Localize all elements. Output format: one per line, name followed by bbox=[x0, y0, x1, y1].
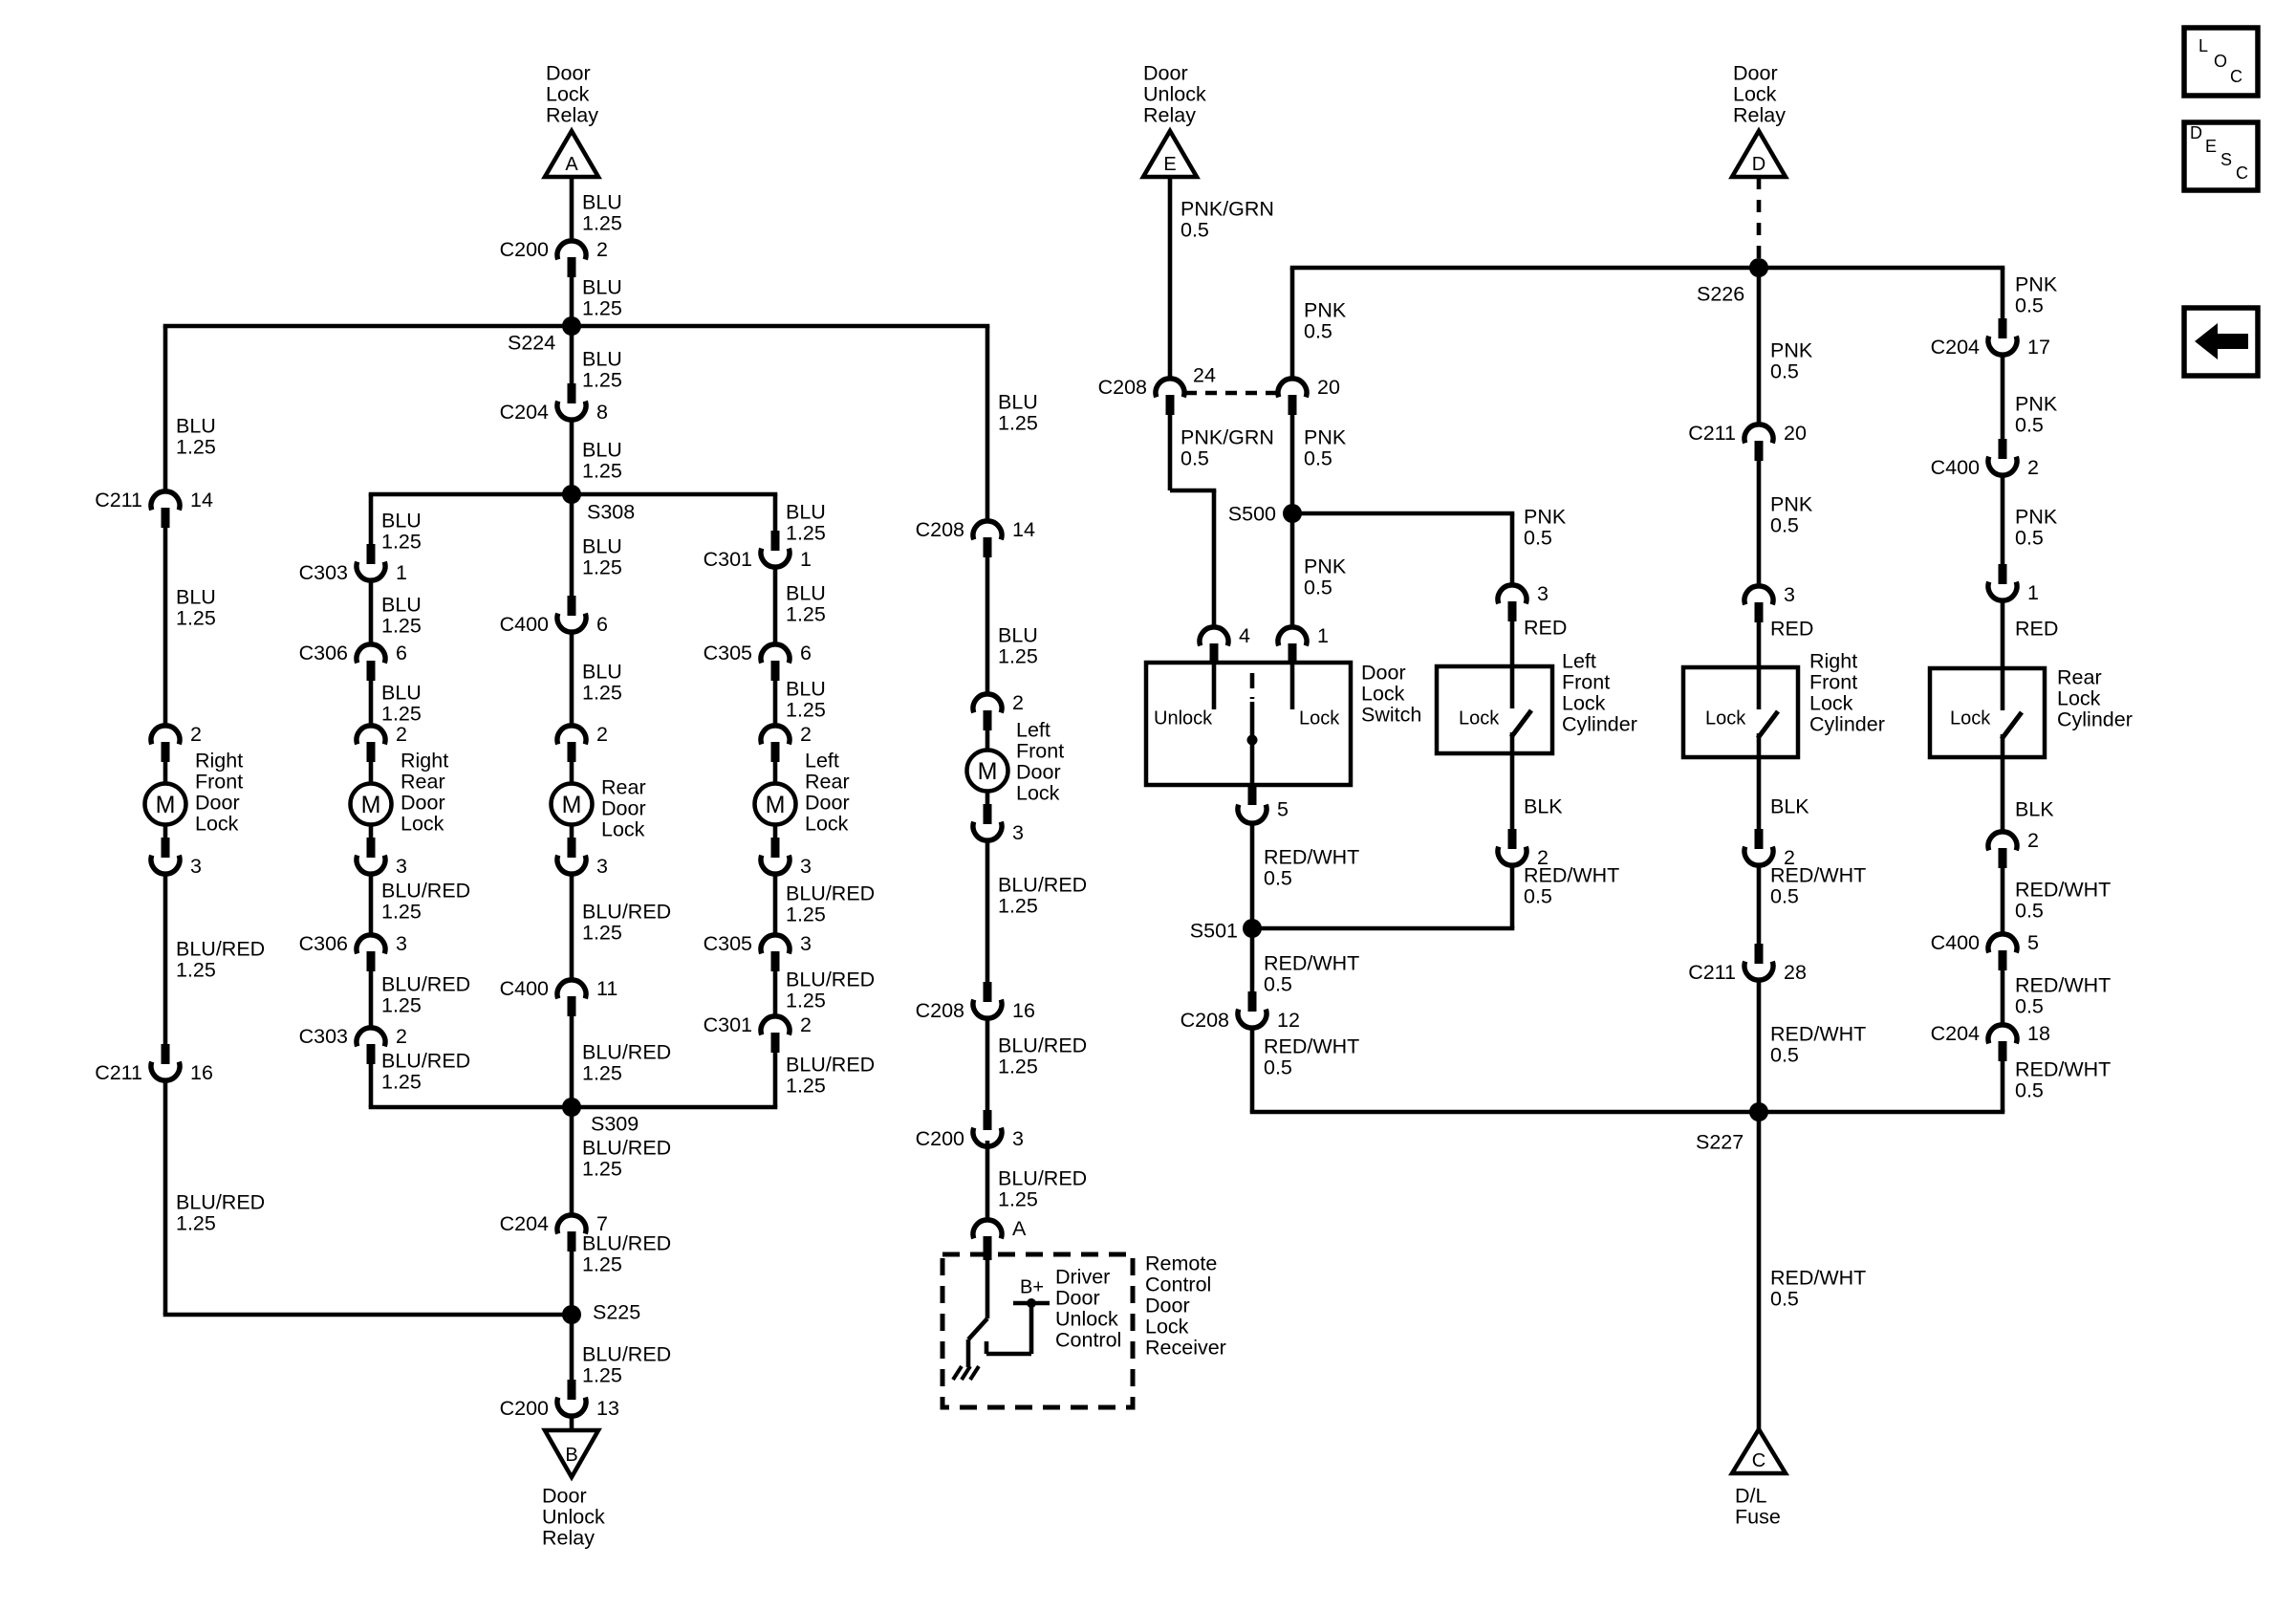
svg-text:Door: Door bbox=[1361, 661, 1406, 684]
svg-text:1.25: 1.25 bbox=[582, 555, 622, 578]
svg-text:Unlock: Unlock bbox=[1154, 708, 1213, 729]
svg-text:RED/WHT: RED/WHT bbox=[1770, 1022, 1866, 1045]
svg-text:2: 2 bbox=[800, 723, 812, 746]
svg-text:2: 2 bbox=[2027, 456, 2039, 479]
svg-text:14: 14 bbox=[1012, 518, 1035, 541]
svg-text:C400: C400 bbox=[1931, 931, 1980, 954]
svg-text:D: D bbox=[1752, 154, 1765, 175]
svg-text:S224: S224 bbox=[508, 331, 555, 354]
svg-text:C306: C306 bbox=[299, 642, 348, 664]
svg-text:C305: C305 bbox=[704, 932, 752, 955]
svg-text:C200: C200 bbox=[500, 1397, 549, 1420]
svg-text:Door: Door bbox=[1143, 61, 1188, 84]
svg-text:Lock: Lock bbox=[1361, 682, 1405, 705]
svg-text:BLU: BLU bbox=[582, 190, 622, 213]
svg-text:Left: Left bbox=[805, 749, 839, 772]
svg-text:BLU/RED: BLU/RED bbox=[582, 1342, 671, 1365]
svg-text:BLU/RED: BLU/RED bbox=[786, 882, 875, 904]
svg-text:1.25: 1.25 bbox=[381, 614, 422, 637]
svg-text:C305: C305 bbox=[704, 642, 752, 664]
svg-text:B+: B+ bbox=[1020, 1276, 1044, 1297]
svg-text:0.5: 0.5 bbox=[1264, 972, 1292, 995]
svg-text:C208: C208 bbox=[1180, 1009, 1229, 1032]
svg-text:1.25: 1.25 bbox=[786, 903, 826, 925]
svg-text:0.5: 0.5 bbox=[1770, 884, 1799, 907]
svg-text:1.25: 1.25 bbox=[582, 921, 622, 944]
svg-text:RED/WHT: RED/WHT bbox=[1770, 1266, 1866, 1289]
svg-text:3: 3 bbox=[1012, 821, 1024, 844]
svg-text:3: 3 bbox=[800, 855, 812, 878]
svg-text:1.25: 1.25 bbox=[786, 602, 826, 625]
svg-text:Remote: Remote bbox=[1145, 1252, 1217, 1274]
svg-text:1.25: 1.25 bbox=[582, 368, 622, 391]
svg-text:1.25: 1.25 bbox=[582, 459, 622, 482]
svg-text:Relay: Relay bbox=[542, 1526, 595, 1549]
svg-text:BLK: BLK bbox=[1770, 795, 1809, 817]
svg-text:6: 6 bbox=[396, 642, 407, 664]
svg-text:RED/WHT: RED/WHT bbox=[1264, 845, 1359, 868]
svg-text:C211: C211 bbox=[95, 489, 142, 512]
svg-text:C303: C303 bbox=[299, 561, 348, 584]
svg-text:C211: C211 bbox=[1688, 961, 1736, 984]
svg-text:Right: Right bbox=[401, 749, 448, 772]
svg-text:S226: S226 bbox=[1697, 282, 1744, 305]
svg-text:BLU/RED: BLU/RED bbox=[786, 1053, 875, 1076]
svg-text:3: 3 bbox=[1012, 1127, 1024, 1150]
svg-text:C204: C204 bbox=[1931, 1022, 1980, 1045]
svg-text:BLK: BLK bbox=[2015, 797, 2054, 820]
svg-text:D/L: D/L bbox=[1735, 1484, 1767, 1507]
svg-text:18: 18 bbox=[2027, 1022, 2050, 1045]
svg-text:BLU/RED: BLU/RED bbox=[381, 879, 470, 902]
svg-text:1.25: 1.25 bbox=[582, 681, 622, 704]
svg-text:S225: S225 bbox=[593, 1300, 640, 1323]
svg-text:A: A bbox=[565, 154, 578, 175]
svg-text:3: 3 bbox=[190, 855, 202, 878]
svg-text:A: A bbox=[1012, 1217, 1027, 1240]
svg-text:C400: C400 bbox=[500, 613, 549, 636]
svg-text:6: 6 bbox=[800, 642, 812, 664]
svg-text:1.25: 1.25 bbox=[998, 1187, 1038, 1210]
svg-text:3: 3 bbox=[396, 855, 407, 878]
svg-text:Lock: Lock bbox=[546, 82, 590, 105]
svg-text:Front: Front bbox=[195, 770, 243, 793]
svg-text:B: B bbox=[565, 1445, 577, 1466]
svg-text:C: C bbox=[1752, 1450, 1765, 1471]
svg-text:BLU: BLU bbox=[582, 438, 622, 461]
svg-text:14: 14 bbox=[190, 489, 213, 512]
svg-text:PNK: PNK bbox=[1304, 425, 1347, 448]
svg-text:2: 2 bbox=[190, 723, 202, 746]
svg-text:0.5: 0.5 bbox=[1264, 1056, 1292, 1078]
svg-text:Cylinder: Cylinder bbox=[2057, 708, 2133, 730]
svg-text:RED: RED bbox=[1524, 616, 1567, 639]
svg-text:Door: Door bbox=[805, 791, 850, 814]
svg-text:Unlock: Unlock bbox=[1055, 1307, 1118, 1330]
svg-text:1.25: 1.25 bbox=[582, 1363, 622, 1386]
svg-text:Unlock: Unlock bbox=[1143, 82, 1206, 105]
svg-text:Front: Front bbox=[1562, 670, 1610, 693]
svg-text:S308: S308 bbox=[587, 500, 635, 523]
svg-text:Lock: Lock bbox=[1705, 708, 1746, 729]
svg-text:C208: C208 bbox=[1098, 376, 1147, 399]
svg-text:Lock: Lock bbox=[1950, 708, 1991, 729]
svg-text:1.25: 1.25 bbox=[381, 1070, 422, 1093]
svg-text:Left: Left bbox=[1562, 649, 1596, 672]
svg-text:C301: C301 bbox=[704, 548, 752, 571]
svg-text:C204: C204 bbox=[500, 1212, 549, 1235]
svg-text:Lock: Lock bbox=[1809, 691, 1853, 714]
svg-text:0.5: 0.5 bbox=[2015, 526, 2044, 549]
svg-text:RED/WHT: RED/WHT bbox=[1524, 863, 1619, 886]
svg-text:C400: C400 bbox=[500, 977, 549, 1000]
svg-text:PNK: PNK bbox=[1304, 555, 1347, 577]
svg-text:Rear: Rear bbox=[2057, 665, 2102, 688]
svg-text:1.25: 1.25 bbox=[582, 1061, 622, 1084]
svg-text:1.25: 1.25 bbox=[176, 435, 216, 458]
svg-text:M: M bbox=[562, 792, 582, 818]
svg-text:Left: Left bbox=[1016, 718, 1051, 741]
svg-text:S227: S227 bbox=[1696, 1130, 1744, 1153]
svg-text:0.5: 0.5 bbox=[2015, 899, 2044, 922]
svg-text:2: 2 bbox=[396, 723, 407, 746]
svg-text:M: M bbox=[156, 792, 176, 818]
svg-text:1: 1 bbox=[1317, 624, 1329, 647]
svg-text:3: 3 bbox=[596, 855, 608, 878]
svg-text:Lock: Lock bbox=[2057, 686, 2101, 709]
svg-text:1.25: 1.25 bbox=[786, 698, 826, 721]
svg-text:C204: C204 bbox=[500, 401, 549, 424]
svg-text:17: 17 bbox=[2027, 336, 2050, 359]
svg-text:16: 16 bbox=[1012, 999, 1035, 1022]
svg-text:Front: Front bbox=[1016, 739, 1064, 762]
svg-text:C: C bbox=[2236, 163, 2248, 183]
svg-text:0.5: 0.5 bbox=[1304, 319, 1332, 342]
svg-text:PNK: PNK bbox=[2015, 505, 2058, 528]
svg-text:BLU: BLU bbox=[786, 500, 826, 523]
svg-text:Right: Right bbox=[1809, 649, 1857, 672]
svg-text:5: 5 bbox=[1277, 797, 1289, 820]
svg-text:Receiver: Receiver bbox=[1145, 1336, 1226, 1359]
svg-text:C211: C211 bbox=[95, 1061, 142, 1084]
svg-text:1.25: 1.25 bbox=[381, 993, 422, 1016]
svg-text:4: 4 bbox=[1239, 624, 1250, 647]
svg-text:12: 12 bbox=[1277, 1009, 1300, 1032]
svg-text:1.25: 1.25 bbox=[786, 1074, 826, 1097]
svg-text:Relay: Relay bbox=[546, 103, 598, 126]
svg-text:0.5: 0.5 bbox=[1180, 446, 1209, 469]
svg-text:3: 3 bbox=[396, 932, 407, 955]
svg-text:0.5: 0.5 bbox=[1524, 526, 1552, 549]
svg-text:Control: Control bbox=[1145, 1273, 1211, 1295]
svg-text:Door: Door bbox=[401, 791, 445, 814]
svg-text:1.25: 1.25 bbox=[582, 1157, 622, 1180]
svg-text:E: E bbox=[2205, 137, 2217, 156]
svg-text:C208: C208 bbox=[916, 999, 964, 1022]
svg-text:Lock: Lock bbox=[1562, 691, 1606, 714]
svg-text:Rear: Rear bbox=[805, 770, 850, 793]
svg-text:Driver: Driver bbox=[1055, 1265, 1110, 1288]
svg-text:1.25: 1.25 bbox=[786, 989, 826, 1012]
svg-text:BLU: BLU bbox=[381, 681, 422, 704]
svg-text:1.25: 1.25 bbox=[381, 530, 422, 553]
svg-text:Door: Door bbox=[1145, 1294, 1190, 1317]
svg-text:1.25: 1.25 bbox=[381, 702, 422, 725]
svg-text:Lock: Lock bbox=[1459, 708, 1500, 729]
svg-text:2: 2 bbox=[596, 238, 608, 261]
svg-text:C200: C200 bbox=[500, 238, 549, 261]
svg-text:BLU/RED: BLU/RED bbox=[176, 1190, 265, 1213]
svg-text:BLU: BLU bbox=[582, 660, 622, 683]
svg-text:PNK: PNK bbox=[2015, 272, 2058, 295]
svg-text:M: M bbox=[766, 792, 786, 818]
svg-text:Lock: Lock bbox=[1299, 708, 1340, 729]
svg-text:2: 2 bbox=[596, 723, 608, 746]
svg-text:C: C bbox=[2230, 67, 2242, 86]
svg-text:BLU: BLU bbox=[582, 347, 622, 370]
svg-text:Lock: Lock bbox=[401, 812, 444, 835]
svg-text:Switch: Switch bbox=[1361, 703, 1421, 726]
svg-text:Cylinder: Cylinder bbox=[1809, 712, 1885, 735]
svg-text:Door: Door bbox=[195, 791, 240, 814]
svg-text:BLU: BLU bbox=[786, 581, 826, 604]
svg-text:1: 1 bbox=[2027, 581, 2039, 604]
svg-text:3: 3 bbox=[1784, 583, 1795, 606]
svg-text:1.25: 1.25 bbox=[176, 958, 216, 981]
svg-text:O: O bbox=[2214, 52, 2227, 71]
svg-text:1.25: 1.25 bbox=[998, 644, 1038, 667]
svg-text:BLU/RED: BLU/RED bbox=[582, 1040, 671, 1063]
svg-text:RED/WHT: RED/WHT bbox=[1264, 951, 1359, 974]
svg-text:BLU/RED: BLU/RED bbox=[582, 1231, 671, 1254]
svg-text:BLU: BLU bbox=[998, 390, 1038, 413]
svg-text:BLU: BLU bbox=[998, 623, 1038, 646]
svg-text:1.25: 1.25 bbox=[998, 894, 1038, 917]
svg-text:BLU/RED: BLU/RED bbox=[998, 1166, 1087, 1189]
svg-text:0.5: 0.5 bbox=[1304, 446, 1332, 469]
svg-text:Right: Right bbox=[195, 749, 243, 772]
svg-text:BLU: BLU bbox=[582, 534, 622, 557]
svg-text:PNK/GRN: PNK/GRN bbox=[1180, 197, 1274, 220]
svg-text:1.25: 1.25 bbox=[998, 1055, 1038, 1078]
svg-text:Control: Control bbox=[1055, 1328, 1121, 1351]
svg-text:Relay: Relay bbox=[1733, 103, 1786, 126]
svg-text:0.5: 0.5 bbox=[1770, 1287, 1799, 1310]
svg-text:Lock: Lock bbox=[1016, 781, 1060, 804]
svg-text:BLU/RED: BLU/RED bbox=[786, 968, 875, 991]
svg-text:24: 24 bbox=[1193, 363, 1216, 386]
svg-text:Cylinder: Cylinder bbox=[1562, 712, 1637, 735]
svg-text:RED: RED bbox=[1770, 617, 1813, 640]
svg-text:28: 28 bbox=[1784, 961, 1807, 984]
svg-text:BLU: BLU bbox=[381, 593, 422, 616]
svg-text:20: 20 bbox=[1784, 422, 1807, 445]
svg-text:PNK/GRN: PNK/GRN bbox=[1180, 425, 1274, 448]
svg-text:RED/WHT: RED/WHT bbox=[2015, 973, 2111, 996]
svg-text:S: S bbox=[2220, 150, 2232, 169]
svg-text:Rear: Rear bbox=[401, 770, 445, 793]
svg-text:1.25: 1.25 bbox=[998, 411, 1038, 434]
svg-text:1.25: 1.25 bbox=[381, 900, 422, 923]
svg-text:16: 16 bbox=[190, 1061, 213, 1084]
svg-text:RED: RED bbox=[2015, 617, 2058, 640]
svg-text:PNK: PNK bbox=[1770, 492, 1813, 515]
svg-text:BLU/RED: BLU/RED bbox=[582, 900, 671, 923]
svg-text:PNK: PNK bbox=[1304, 298, 1347, 321]
svg-text:RED/WHT: RED/WHT bbox=[1264, 1034, 1359, 1057]
svg-text:C301: C301 bbox=[704, 1013, 752, 1036]
svg-text:1.25: 1.25 bbox=[582, 211, 622, 234]
svg-text:RED/WHT: RED/WHT bbox=[1770, 863, 1866, 886]
svg-text:20: 20 bbox=[1317, 376, 1340, 399]
svg-text:S500: S500 bbox=[1228, 502, 1276, 525]
svg-text:M: M bbox=[978, 758, 998, 785]
svg-text:1.25: 1.25 bbox=[176, 1211, 216, 1234]
svg-text:6: 6 bbox=[596, 613, 608, 636]
svg-text:Relay: Relay bbox=[1143, 103, 1196, 126]
svg-text:3: 3 bbox=[800, 932, 812, 955]
svg-text:2: 2 bbox=[1012, 691, 1024, 714]
svg-text:C303: C303 bbox=[299, 1025, 348, 1048]
svg-text:1.25: 1.25 bbox=[786, 521, 826, 544]
svg-text:BLK: BLK bbox=[1524, 795, 1563, 817]
svg-text:Lock: Lock bbox=[1733, 82, 1777, 105]
svg-text:Door: Door bbox=[1055, 1286, 1100, 1309]
svg-text:2: 2 bbox=[2027, 829, 2039, 852]
svg-text:C208: C208 bbox=[916, 518, 964, 541]
svg-text:BLU/RED: BLU/RED bbox=[998, 873, 1087, 896]
svg-text:Unlock: Unlock bbox=[542, 1505, 605, 1528]
svg-text:Door: Door bbox=[1016, 760, 1061, 783]
svg-text:1: 1 bbox=[800, 548, 812, 571]
svg-text:5: 5 bbox=[2027, 931, 2039, 954]
svg-text:Lock: Lock bbox=[601, 817, 645, 840]
svg-text:M: M bbox=[361, 792, 381, 818]
svg-text:0.5: 0.5 bbox=[1770, 513, 1799, 536]
svg-text:S501: S501 bbox=[1190, 919, 1238, 942]
svg-text:D: D bbox=[2190, 123, 2202, 142]
svg-text:Front: Front bbox=[1809, 670, 1857, 693]
svg-text:0.5: 0.5 bbox=[1770, 359, 1799, 382]
svg-text:0.5: 0.5 bbox=[1524, 884, 1552, 907]
svg-text:2: 2 bbox=[396, 1025, 407, 1048]
svg-text:1.25: 1.25 bbox=[582, 1252, 622, 1275]
svg-text:0.5: 0.5 bbox=[1770, 1043, 1799, 1066]
svg-text:0.5: 0.5 bbox=[2015, 413, 2044, 436]
svg-text:C400: C400 bbox=[1931, 456, 1980, 479]
svg-text:13: 13 bbox=[596, 1397, 619, 1420]
svg-text:BLU/RED: BLU/RED bbox=[176, 937, 265, 960]
svg-text:Fuse: Fuse bbox=[1735, 1505, 1781, 1528]
svg-text:Lock: Lock bbox=[805, 812, 849, 835]
svg-text:BLU/RED: BLU/RED bbox=[381, 972, 470, 995]
svg-text:Lock: Lock bbox=[1145, 1315, 1189, 1338]
svg-text:Door: Door bbox=[601, 796, 646, 819]
svg-text:E: E bbox=[1163, 154, 1176, 175]
svg-text:BLU: BLU bbox=[381, 509, 422, 532]
svg-text:BLU/RED: BLU/RED bbox=[998, 1034, 1087, 1056]
svg-text:BLU: BLU bbox=[176, 414, 216, 437]
svg-text:Door: Door bbox=[542, 1484, 587, 1507]
svg-text:1: 1 bbox=[396, 561, 407, 584]
svg-text:Lock: Lock bbox=[195, 812, 239, 835]
svg-text:PNK: PNK bbox=[1770, 338, 1813, 361]
svg-text:Door: Door bbox=[1733, 61, 1778, 84]
svg-text:2: 2 bbox=[800, 1013, 812, 1036]
svg-text:PNK: PNK bbox=[1524, 505, 1567, 528]
svg-text:C200: C200 bbox=[916, 1127, 964, 1150]
svg-text:C204: C204 bbox=[1931, 336, 1980, 359]
svg-text:0.5: 0.5 bbox=[1180, 218, 1209, 241]
svg-text:0.5: 0.5 bbox=[2015, 994, 2044, 1017]
svg-text:C306: C306 bbox=[299, 932, 348, 955]
svg-text:BLU/RED: BLU/RED bbox=[582, 1136, 671, 1159]
svg-text:0.5: 0.5 bbox=[2015, 1078, 2044, 1101]
svg-text:RED/WHT: RED/WHT bbox=[2015, 878, 2111, 901]
svg-text:0.5: 0.5 bbox=[1304, 576, 1332, 599]
svg-text:0.5: 0.5 bbox=[2015, 294, 2044, 316]
svg-text:C211: C211 bbox=[1688, 422, 1736, 445]
svg-text:PNK: PNK bbox=[2015, 392, 2058, 415]
svg-text:L: L bbox=[2199, 36, 2208, 55]
svg-text:Rear: Rear bbox=[601, 775, 646, 798]
svg-text:S309: S309 bbox=[591, 1112, 639, 1135]
svg-text:3: 3 bbox=[1537, 582, 1549, 605]
svg-text:1.25: 1.25 bbox=[176, 606, 216, 629]
svg-text:BLU: BLU bbox=[582, 275, 622, 298]
svg-text:0.5: 0.5 bbox=[1264, 866, 1292, 889]
svg-text:Door: Door bbox=[546, 61, 591, 84]
svg-text:BLU: BLU bbox=[176, 585, 216, 608]
svg-text:8: 8 bbox=[596, 401, 608, 424]
svg-text:RED/WHT: RED/WHT bbox=[2015, 1057, 2111, 1080]
svg-text:BLU: BLU bbox=[786, 677, 826, 700]
svg-text:1.25: 1.25 bbox=[582, 296, 622, 319]
svg-text:11: 11 bbox=[596, 977, 617, 1000]
svg-text:BLU/RED: BLU/RED bbox=[381, 1049, 470, 1072]
